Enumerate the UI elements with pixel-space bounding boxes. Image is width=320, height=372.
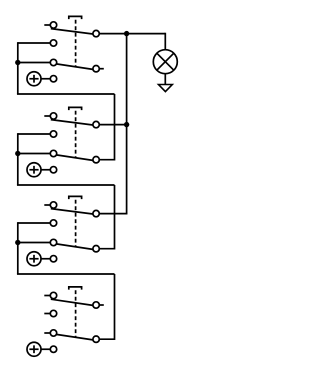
bottom wire to next block [18, 183, 115, 186]
socket X1 terminal [50, 76, 56, 82]
switch S4 pole B left terminal [50, 330, 56, 336]
socket X2 [27, 163, 41, 177]
wire: switch S1 lower contact stub [99, 68, 104, 70]
switch S2 pole A right contact [93, 121, 99, 127]
socket X1 [27, 72, 41, 86]
switch S1 pole A blade [51, 29, 93, 34]
wire pole B terminal to rail [18, 62, 51, 64]
socket X4 terminal [50, 346, 56, 352]
switch S4 actuator [69, 287, 82, 290]
switch S1 mechanical link (dashed) [75, 20, 77, 67]
switch S2 pole A blade [51, 120, 93, 125]
wire: switch S1 contact to lamp node [99, 33, 165, 35]
switch S2 pole B right contact [93, 157, 99, 163]
wire pole B terminal to rail [18, 153, 51, 155]
switch S4 pole B terminal stub [44, 332, 50, 334]
switch S4 pole A terminal stub [44, 295, 50, 297]
switch S4 pole A blade [51, 299, 93, 305]
socket X4 lead [41, 348, 50, 350]
wire: switch S2 top contact to lamp line [99, 124, 127, 126]
switch S3 pole B left terminal [50, 239, 56, 245]
left rail wire [17, 42, 19, 94]
switch S2 actuator [69, 107, 82, 110]
switch S3 mechanical link (dashed) [75, 200, 77, 247]
wire: switch S3 top contact to lamp line [99, 213, 127, 215]
junction rail/pole B [15, 60, 20, 65]
switch S3 actuator [69, 196, 82, 199]
wire middle terminal to rail [18, 42, 51, 44]
wire: block3 rail down to switch S4 lower contact [99, 274, 114, 339]
switch S1 pole B left terminal [50, 59, 56, 65]
switch S1 pole A left terminal [50, 22, 56, 28]
switch S2 pole A left terminal [50, 113, 56, 119]
wire middle terminal to rail [18, 222, 51, 224]
socket X1 lead [41, 78, 50, 80]
bottom wire to next block [18, 92, 115, 95]
switch S3 pole A right contact [93, 210, 99, 216]
switch S1 pole A terminal stub [44, 24, 50, 26]
socket X3 terminal [50, 256, 56, 262]
switch S1 actuator [69, 16, 82, 19]
arrow to neutral (open triangle) [159, 85, 173, 92]
switch S3 pole A blade [51, 209, 93, 214]
lamp E1 [153, 50, 177, 74]
wire: lamp top lead [164, 33, 166, 50]
switch S1 pole B blade [56, 64, 93, 70]
switch S4 middle left terminal [50, 310, 56, 316]
switch S4 pole B blade [56, 334, 93, 340]
switch S3 pole B blade [56, 244, 93, 250]
wire: block2 rail down to switch S3 lower contact [99, 185, 114, 249]
socket X4 [27, 342, 41, 356]
socket X3 lead [41, 258, 50, 260]
junction rail/pole B [15, 151, 20, 156]
node: lamp feed junction [124, 31, 129, 36]
switch S2 middle left terminal [50, 131, 56, 137]
socket X2 lead [41, 169, 50, 171]
socket X3 [27, 252, 41, 266]
left rail wire [17, 133, 19, 185]
switch S2 mechanical link (dashed) [75, 111, 77, 158]
socket X2 terminal [50, 167, 56, 173]
switch S2 pole B blade [56, 155, 93, 161]
switch S4 middle terminal stub [44, 313, 50, 315]
left rail wire [17, 222, 19, 274]
wire: switch S4 top contact stub [99, 304, 104, 306]
wire: lamp drop from junction down to switch S3 [126, 34, 128, 214]
junction rail/pole B [15, 240, 20, 245]
switch S2 pole A terminal stub [44, 115, 50, 117]
switch S1 pole A right contact [93, 30, 99, 36]
switch S4 pole A right contact [93, 302, 99, 308]
switch S3 middle left terminal [50, 220, 56, 226]
switch S3 pole B right contact [93, 246, 99, 252]
lamp bottom lead [164, 74, 166, 85]
switch S4 pole B right contact [93, 336, 99, 342]
wire: block1 rail down to switch S2 lower contact [99, 94, 114, 160]
wire middle terminal to rail [18, 133, 51, 135]
switch S4 mechanical link (dashed) [75, 290, 77, 337]
switch S1 pole B right contact [93, 66, 99, 72]
switch S4 pole A left terminal [50, 292, 56, 298]
bottom wire to next block [18, 272, 115, 275]
junction: lamp line / switch S2 contact [124, 122, 129, 127]
switch S3 pole A left terminal [50, 202, 56, 208]
wire pole B terminal to rail [18, 242, 51, 244]
switch S3 pole A terminal stub [44, 204, 50, 206]
switch S1 middle left terminal [50, 40, 56, 46]
switch S2 pole B left terminal [50, 150, 56, 156]
